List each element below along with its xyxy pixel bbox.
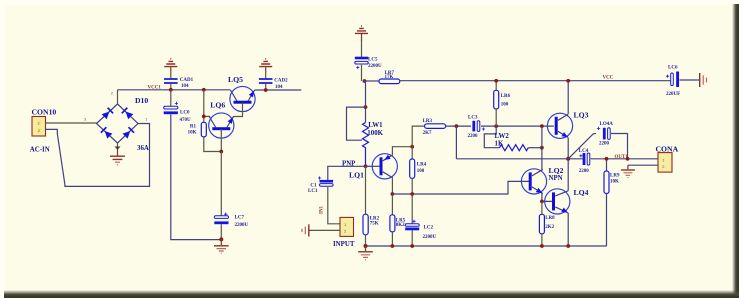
capacitor LC0 470U — [164, 90, 191, 123]
svg-text:LQ1: LQ1 — [349, 171, 364, 180]
ground below CONA pin2 wire — [621, 165, 635, 178]
svg-text:2: 2 — [111, 91, 114, 96]
svg-text:3: 3 — [84, 117, 87, 122]
svg-text:CON10: CON10 — [32, 108, 57, 117]
ground below LC7 — [214, 239, 229, 253]
ground right of LC6 — [700, 73, 707, 87]
capacitor LC5 2200U — [355, 58, 382, 82]
wire LQ4 collector up to rail — [567, 159, 569, 191]
resistor LR9 10K — [604, 159, 620, 246]
svg-text:2K7: 2K7 — [423, 131, 432, 136]
svg-text:LO4A: LO4A — [600, 122, 614, 127]
transistor LQ5 — [228, 75, 255, 112]
transistor LQ3 — [547, 113, 572, 138]
junction LQ2 emitter / LR8 — [540, 200, 544, 204]
junction LR3 right / rail drop — [455, 124, 459, 128]
svg-text:100: 100 — [417, 169, 425, 174]
junction LQ4 emitter bottom — [566, 244, 570, 248]
wire LC3 to LQ3 base — [481, 125, 554, 127]
svg-text:LR8: LR8 — [545, 216, 555, 221]
svg-text:CAD2: CAD2 — [274, 78, 288, 83]
resistor LR7 17K — [363, 71, 400, 84]
junction rail center — [566, 157, 570, 161]
svg-text:2200U: 2200U — [235, 223, 249, 228]
transistor LQ2 NPN — [521, 169, 546, 194]
junction LC7 bottom — [219, 237, 223, 241]
junction LC5 / LR7 / LW1 — [363, 79, 367, 83]
diode D10 top-left — [101, 107, 113, 119]
svg-text:2200U: 2200U — [423, 235, 437, 240]
diode D10 bottom-right — [122, 127, 134, 139]
junction LQ6 base / R1 bottom — [219, 150, 223, 154]
svg-text:LR4: LR4 — [417, 162, 427, 167]
wire CONA pin2 to ground — [628, 164, 658, 166]
junction LR6 top on VCC line — [494, 79, 498, 83]
wire LQ1 collector down — [391, 177, 393, 194]
resistor LR4 100 — [410, 147, 427, 194]
capacitor LC2 2200U — [405, 194, 436, 246]
wire LQ1 emitter up to LR4 — [392, 147, 412, 156]
junction LR8 bottom — [540, 244, 544, 248]
svg-text:1: 1 — [145, 117, 148, 122]
svg-text:LC1: LC1 — [308, 189, 318, 194]
svg-text:LC7: LC7 — [235, 216, 245, 221]
svg-text:36A: 36A — [137, 145, 149, 152]
svg-text:220UF: 220UF — [666, 92, 680, 97]
svg-text:LW2: LW2 — [495, 133, 510, 140]
svg-text:CONA: CONA — [656, 144, 679, 153]
junction R1 top — [202, 115, 206, 119]
svg-text:2200: 2200 — [579, 169, 590, 174]
wire CON10 pin1 to bridge — [46, 122, 97, 124]
wire LQ1 base lead — [366, 165, 380, 167]
svg-text:PNP: PNP — [342, 161, 356, 168]
wire long line y=80.8 to right — [400, 80, 671, 82]
wire down to LC7 — [220, 152, 222, 216]
svg-text:R1: R1 — [190, 125, 197, 130]
capacitor C1 LC1 — [308, 176, 333, 193]
junction at CAD1 — [169, 88, 173, 92]
svg-text:2200U: 2200U — [368, 64, 382, 69]
wire LQ5 base down-left to LQ6 emitter — [233, 103, 243, 117]
svg-text:NPN: NPN — [549, 175, 563, 182]
svg-text:LW1: LW1 — [368, 122, 383, 129]
wire LQ4 emitter down to ground rail — [567, 213, 569, 246]
svg-text:LR6: LR6 — [501, 94, 511, 99]
wire output rail — [456, 158, 658, 160]
svg-text:104: 104 — [181, 84, 189, 89]
svg-text:LR3: LR3 — [423, 119, 433, 124]
potentiometer LW1 100K — [347, 81, 384, 166]
svg-text:17K: 17K — [385, 75, 394, 80]
ground below bridge — [110, 143, 125, 165]
svg-text:LQ6: LQ6 — [210, 101, 225, 110]
wire rail y194 to LQ2 base — [392, 181, 529, 194]
junction LR5 bottom — [391, 244, 395, 248]
svg-text:10K: 10K — [610, 179, 619, 184]
junction LC2 bottom — [410, 244, 414, 248]
svg-text:LQ5: LQ5 — [228, 75, 243, 84]
svg-text:75K: 75K — [370, 221, 379, 226]
resistor R1 10K — [188, 122, 207, 137]
wire LQ6 base down — [220, 129, 222, 152]
connector IN1 INPUT — [333, 217, 355, 247]
resistor LR8 2K2 — [539, 201, 555, 246]
svg-text:100: 100 — [501, 103, 509, 108]
junction LR4 top — [410, 145, 414, 149]
connector CONA — [656, 144, 679, 172]
svg-text:OUT1: OUT1 — [615, 155, 629, 160]
svg-text:LQ3: LQ3 — [574, 111, 589, 120]
junction LR4 bottom / LC2 top — [410, 192, 414, 196]
svg-text:CAD1: CAD1 — [180, 78, 194, 83]
junction R1 top branch on VCC1 — [202, 88, 206, 92]
wire rail drop x456 — [455, 126, 457, 159]
svg-text:2K2: 2K2 — [545, 225, 554, 230]
resistor LR3 2K7 — [423, 119, 446, 136]
wire CON10 pin2 loop to bridge right vertex — [46, 124, 150, 187]
junction LQ3 collector on VCC line — [566, 79, 570, 83]
transistor LQ1 PNP — [372, 154, 397, 179]
ground above CAD2 — [259, 59, 272, 79]
wire x541 vertical to LQ2 collector — [541, 126, 543, 170]
connector CON10 — [30, 108, 57, 154]
ground above LC5 — [355, 26, 368, 57]
svg-text:C1: C1 — [310, 184, 317, 189]
wire INPUT pin2 to signal ground — [310, 229, 341, 231]
ground above CAD1 — [164, 59, 177, 79]
svg-text:VCC: VCC — [603, 75, 614, 80]
junction LR6 bottom — [494, 124, 498, 128]
capacitor LC7 2200U — [214, 213, 248, 240]
transistor LQ6 — [209, 101, 234, 139]
svg-text:LC0: LC0 — [180, 111, 190, 116]
potentiometer LW2 1K — [484, 126, 542, 151]
svg-text:LR9: LR9 — [610, 173, 620, 178]
node LQ1 base junction — [364, 164, 368, 168]
capacitor LC4A 2200 — [597, 122, 628, 159]
capacitor LC4 2200 — [579, 149, 590, 174]
wire LQ2 emitter down to LQ4 base — [542, 193, 552, 201]
svg-text:10K: 10K — [188, 131, 197, 136]
svg-text:LC2: LC2 — [424, 225, 434, 230]
diode D10 bottom-left — [100, 127, 112, 139]
wire R1 branch vertical — [204, 90, 221, 152]
svg-text:D10: D10 — [135, 96, 148, 105]
capacitor LC3 2200 — [468, 115, 486, 139]
resistor LR6 100 — [494, 81, 511, 126]
svg-text:LC4: LC4 — [579, 149, 589, 154]
wire LQ3 emitter down to rail — [567, 138, 569, 159]
svg-text:AC-IN: AC-IN — [30, 147, 50, 154]
junction LW2 right top — [540, 124, 544, 128]
diode bridge D10 — [84, 91, 149, 153]
junction LQ1 collector — [391, 192, 395, 196]
wire diagonal to LC4A — [568, 134, 596, 159]
wire C1 down to INPUT pin1 — [328, 187, 340, 224]
ground left of INPUT — [302, 224, 309, 236]
wire LR3 corner — [412, 126, 424, 147]
resistor LR2 75K — [363, 166, 380, 246]
wire R1 top to LQ6 collector — [204, 115, 210, 117]
transistor LQ4 — [545, 189, 570, 214]
capacitor CAD1 104 — [164, 78, 194, 90]
svg-text:2200: 2200 — [468, 134, 479, 139]
junction LC4A drop on rail — [626, 157, 630, 161]
wire y126 line LR3 to LC3 — [446, 125, 471, 127]
svg-text:IN1: IN1 — [320, 205, 325, 214]
svg-text:VCC1: VCC1 — [148, 86, 162, 91]
wire base node left to C1 — [328, 166, 366, 180]
wire LC0 down and across to LC7 ground — [171, 114, 221, 239]
junction at CAD2 — [264, 88, 268, 92]
junction LR2 bottom — [364, 244, 368, 248]
svg-text:INPUT: INPUT — [333, 241, 355, 248]
svg-text:1K: 1K — [495, 140, 504, 147]
svg-text:2200: 2200 — [599, 142, 610, 147]
wire VCC1 main line left — [118, 89, 231, 91]
wire LC6 to right ground — [679, 79, 699, 81]
junction LR9 top — [605, 157, 609, 161]
svg-text:LC3: LC3 — [468, 115, 478, 120]
resistor LR5 8K2 — [390, 194, 406, 246]
svg-text:470U: 470U — [180, 118, 192, 123]
capacitor LC6 220UF — [666, 66, 680, 98]
svg-text:LQ2: LQ2 — [549, 166, 564, 175]
ground below LR2 — [358, 246, 373, 260]
wire bridge top stem — [117, 90, 119, 104]
svg-text:8K2: 8K2 — [396, 223, 405, 228]
wire LQ3 collector up to VCC — [567, 81, 569, 114]
junction LW2 right — [540, 146, 544, 150]
svg-text:LQ4: LQ4 — [574, 188, 589, 197]
svg-text:104: 104 — [275, 85, 283, 90]
svg-text:LC5: LC5 — [368, 58, 378, 63]
svg-text:LC6: LC6 — [668, 66, 678, 71]
svg-text:100K: 100K — [367, 130, 383, 137]
wire VCC1 main line right of LQ5 — [255, 89, 302, 91]
capacitor CAD2 104 — [259, 78, 288, 90]
wire bottom ground rail — [366, 245, 607, 247]
diode D10 top-right — [121, 107, 133, 119]
